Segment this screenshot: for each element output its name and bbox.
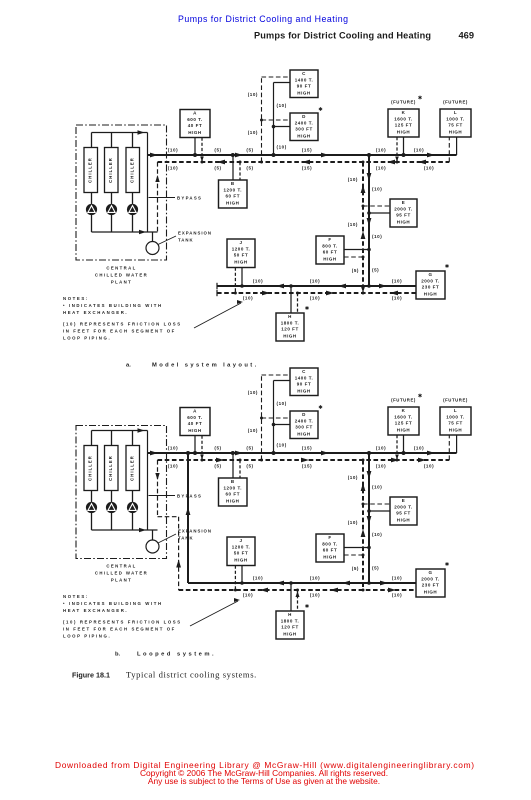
svg-text:(10): (10)	[248, 92, 258, 97]
svg-text:(10): (10)	[168, 463, 178, 468]
svg-text:HIGH: HIGH	[397, 427, 410, 432]
svg-text:120 FT: 120 FT	[281, 327, 299, 332]
svg-text:120 FT: 120 FT	[281, 625, 299, 630]
svg-text:IN FEET FOR EACH SEGMENT OF: IN FEET FOR EACH SEGMENT OF	[63, 329, 176, 334]
svg-text:C: C	[302, 71, 306, 76]
svg-text:1600 T.: 1600 T.	[394, 414, 413, 419]
svg-text:1400 T.: 1400 T.	[295, 77, 314, 82]
svg-text:(10): (10)	[310, 593, 320, 598]
svg-text:NOTES:: NOTES:	[63, 594, 89, 599]
svg-text:(5): (5)	[214, 463, 221, 468]
svg-text:50 FT: 50 FT	[234, 551, 249, 556]
svg-text:(FUTURE): (FUTURE)	[443, 398, 468, 403]
svg-text:CHILLED WATER: CHILLED WATER	[95, 273, 148, 278]
svg-text:Pumps for District Cooling and: Pumps for District Cooling and Heating	[178, 14, 348, 24]
svg-text:(5): (5)	[352, 566, 359, 571]
svg-text:CHILLER: CHILLER	[108, 455, 113, 481]
svg-text:95 FT: 95 FT	[396, 511, 411, 516]
svg-text:TANK: TANK	[178, 536, 194, 541]
svg-text:CHILLER: CHILLER	[129, 455, 134, 481]
svg-text:(5): (5)	[372, 268, 379, 273]
svg-text:(10): (10)	[424, 165, 434, 170]
svg-text:469: 469	[458, 31, 474, 41]
svg-text:Any use is subject to the Term: Any use is subject to the Terms of Use a…	[148, 776, 380, 786]
svg-text:(10): (10)	[168, 165, 178, 170]
svg-text:HIGH: HIGH	[323, 256, 336, 261]
svg-text:HIGH: HIGH	[297, 90, 310, 95]
svg-text:125 FT: 125 FT	[395, 123, 413, 128]
svg-text:(5): (5)	[246, 445, 253, 450]
svg-text:HIGH: HIGH	[323, 554, 336, 559]
svg-text:B: B	[231, 181, 235, 186]
svg-text:HIGH: HIGH	[297, 133, 310, 138]
svg-text:1400 T.: 1400 T.	[295, 375, 314, 380]
svg-text:230 FT: 230 FT	[422, 285, 440, 290]
svg-text:(10): (10)	[277, 401, 287, 406]
svg-text:300 FT: 300 FT	[295, 127, 313, 132]
svg-text:HIGH: HIGH	[424, 291, 437, 296]
svg-text:(FUTURE): (FUTURE)	[443, 100, 468, 105]
svg-text:HEAT EXCHANGER.: HEAT EXCHANGER.	[63, 608, 128, 613]
svg-text:(5): (5)	[214, 147, 221, 152]
svg-text:E: E	[402, 498, 406, 503]
svg-text:HIGH: HIGH	[297, 388, 310, 393]
svg-text:G: G	[428, 570, 432, 575]
svg-text:Typical district cooling syste: Typical district cooling systems.	[126, 670, 257, 680]
svg-text:50 FT: 50 FT	[234, 253, 249, 258]
svg-text:HIGH: HIGH	[424, 589, 437, 594]
svg-text:(10) REPRESENTS FRICTION LOSS: (10) REPRESENTS FRICTION LOSS	[63, 322, 182, 327]
svg-text:(5): (5)	[246, 165, 253, 170]
svg-text:E: E	[402, 200, 406, 205]
svg-text:K: K	[402, 408, 406, 413]
svg-text:1000 T.: 1000 T.	[446, 116, 465, 121]
svg-text:(10): (10)	[243, 296, 253, 301]
svg-text:(5): (5)	[246, 463, 253, 468]
svg-text:(10): (10)	[348, 475, 358, 480]
svg-text:LOOP PIPING.: LOOP PIPING.	[63, 336, 111, 341]
svg-text:1800 T.: 1800 T.	[281, 320, 300, 325]
svg-text:HIGH: HIGH	[283, 631, 296, 636]
svg-text:(10): (10)	[372, 485, 382, 490]
svg-text:IN FEET FOR EACH SEGMENT OF: IN FEET FOR EACH SEGMENT OF	[63, 627, 176, 632]
svg-text:1800 T.: 1800 T.	[281, 618, 300, 623]
svg-text:60 FT: 60 FT	[323, 548, 338, 553]
svg-text:EXPANSION: EXPANSION	[178, 231, 212, 236]
svg-text:HIGH: HIGH	[397, 517, 410, 522]
svg-text:B: B	[231, 479, 235, 484]
svg-text:800 T.: 800 T.	[322, 541, 338, 546]
svg-text:• INDICATES BUILDING WITH: • INDICATES BUILDING WITH	[63, 601, 163, 606]
svg-text:(10): (10)	[348, 222, 358, 227]
svg-text:(FUTURE): (FUTURE)	[391, 398, 416, 403]
svg-text:(10): (10)	[392, 296, 402, 301]
svg-text:PLANT: PLANT	[111, 280, 132, 285]
svg-text:F: F	[328, 535, 331, 540]
svg-text:(10): (10)	[372, 187, 382, 192]
svg-text:(10): (10)	[392, 593, 402, 598]
svg-text:• INDICATES BUILDING WITH: • INDICATES BUILDING WITH	[63, 303, 163, 308]
svg-text:75 FT: 75 FT	[448, 421, 463, 426]
svg-text:HIGH: HIGH	[397, 219, 410, 224]
svg-text:C: C	[302, 369, 306, 374]
svg-text:A: A	[193, 111, 197, 116]
svg-text:(10): (10)	[310, 296, 320, 301]
svg-text:(10): (10)	[310, 575, 320, 580]
svg-text:(FUTURE): (FUTURE)	[391, 100, 416, 105]
svg-text:(10) REPRESENTS FRICTION LOSS: (10) REPRESENTS FRICTION LOSS	[63, 620, 182, 625]
svg-text:1200 T.: 1200 T.	[223, 187, 242, 192]
svg-text:J: J	[239, 240, 242, 245]
svg-text:HIGH: HIGH	[234, 557, 247, 562]
svg-text:H: H	[288, 612, 292, 617]
svg-text:Looped system.: Looped system.	[137, 652, 216, 658]
svg-text:HIGH: HIGH	[188, 130, 201, 135]
svg-text:Pumps for District Cooling and: Pumps for District Cooling and Heating	[254, 31, 431, 41]
svg-text:(10): (10)	[253, 575, 263, 580]
svg-text:(5): (5)	[246, 147, 253, 152]
svg-text:EXPANSION: EXPANSION	[178, 529, 212, 534]
svg-text:90 FT: 90 FT	[297, 382, 312, 387]
svg-text:2000 T.: 2000 T.	[421, 278, 440, 283]
svg-text:K: K	[402, 110, 406, 115]
svg-text:600 T.: 600 T.	[187, 117, 203, 122]
svg-text:(10): (10)	[253, 278, 263, 283]
svg-text:HIGH: HIGH	[226, 498, 239, 503]
svg-text:LOOP PIPING.: LOOP PIPING.	[63, 634, 111, 639]
svg-text:(5): (5)	[372, 566, 379, 571]
svg-text:(10): (10)	[277, 145, 287, 150]
svg-text:A: A	[193, 409, 197, 414]
svg-text:J: J	[239, 538, 242, 543]
svg-text:a.: a.	[126, 363, 131, 369]
svg-text:1200 T.: 1200 T.	[223, 485, 242, 490]
svg-text:(15): (15)	[302, 165, 312, 170]
svg-text:CHILLER: CHILLER	[129, 157, 134, 183]
svg-text:b.: b.	[115, 652, 121, 658]
svg-text:300 FT: 300 FT	[295, 425, 313, 430]
svg-text:2400 T.: 2400 T.	[295, 418, 314, 423]
svg-text:(10): (10)	[424, 463, 434, 468]
svg-text:230 FT: 230 FT	[422, 583, 440, 588]
svg-text:90 FT: 90 FT	[297, 84, 312, 89]
svg-text:(15): (15)	[302, 463, 312, 468]
svg-text:40 FT: 40 FT	[188, 123, 203, 128]
svg-text:HIGH: HIGH	[397, 129, 410, 134]
svg-text:BYPASS: BYPASS	[177, 196, 202, 201]
svg-text:G: G	[428, 272, 432, 277]
svg-text:2000 T.: 2000 T.	[394, 206, 413, 211]
svg-text:(10): (10)	[414, 445, 424, 450]
svg-text:L: L	[454, 110, 457, 115]
svg-text:Model system layout.: Model system layout.	[152, 363, 259, 369]
svg-text:(10): (10)	[168, 147, 178, 152]
svg-text:(10): (10)	[376, 445, 386, 450]
svg-text:600 T.: 600 T.	[187, 415, 203, 420]
svg-text:1200 T.: 1200 T.	[232, 544, 251, 549]
svg-text:(10): (10)	[310, 278, 320, 283]
svg-text:(10): (10)	[248, 428, 258, 433]
svg-text:(10): (10)	[414, 147, 424, 152]
svg-text:NOTES:: NOTES:	[63, 296, 89, 301]
svg-text:(5): (5)	[214, 445, 221, 450]
svg-text:HEAT EXCHANGER.: HEAT EXCHANGER.	[63, 310, 128, 315]
svg-text:60 FT: 60 FT	[225, 492, 240, 497]
svg-text:TANK: TANK	[178, 238, 194, 243]
svg-text:800 T.: 800 T.	[322, 243, 338, 248]
svg-text:(10): (10)	[376, 463, 386, 468]
svg-text:(10): (10)	[248, 390, 258, 395]
svg-text:HIGH: HIGH	[234, 259, 247, 264]
svg-text:HIGH: HIGH	[297, 431, 310, 436]
svg-text:125 FT: 125 FT	[395, 421, 413, 426]
svg-text:75 FT: 75 FT	[448, 123, 463, 128]
svg-text:H: H	[288, 314, 292, 319]
svg-text:HIGH: HIGH	[283, 333, 296, 338]
svg-text:(10): (10)	[376, 147, 386, 152]
svg-text:(10): (10)	[348, 520, 358, 525]
svg-text:2000 T.: 2000 T.	[394, 504, 413, 509]
svg-text:(5): (5)	[214, 165, 221, 170]
svg-text:(10): (10)	[372, 234, 382, 239]
svg-text:(10): (10)	[277, 103, 287, 108]
svg-text:F: F	[328, 237, 331, 242]
svg-text:HIGH: HIGH	[226, 200, 239, 205]
svg-text:(10): (10)	[243, 593, 253, 598]
svg-text:(10): (10)	[372, 532, 382, 537]
svg-text:BYPASS: BYPASS	[177, 494, 202, 499]
svg-text:2400 T.: 2400 T.	[295, 120, 314, 125]
svg-text:(15): (15)	[302, 147, 312, 152]
svg-text:1000 T.: 1000 T.	[446, 414, 465, 419]
svg-text:(10): (10)	[392, 278, 402, 283]
svg-text:HIGH: HIGH	[449, 129, 462, 134]
svg-text:2000 T.: 2000 T.	[421, 576, 440, 581]
svg-text:(10): (10)	[376, 165, 386, 170]
svg-text:(10): (10)	[168, 445, 178, 450]
svg-text:HIGH: HIGH	[449, 427, 462, 432]
svg-text:CENTRAL: CENTRAL	[106, 564, 136, 569]
svg-text:(10): (10)	[248, 130, 258, 135]
svg-text:(5): (5)	[352, 268, 359, 273]
svg-text:(10): (10)	[277, 443, 287, 448]
svg-text:L: L	[454, 408, 457, 413]
svg-text:60 FT: 60 FT	[225, 194, 240, 199]
svg-text:60 FT: 60 FT	[323, 250, 338, 255]
svg-text:CHILLED WATER: CHILLED WATER	[95, 571, 148, 576]
svg-text:D: D	[302, 114, 306, 119]
svg-text:(10): (10)	[392, 575, 402, 580]
svg-text:(15): (15)	[302, 445, 312, 450]
svg-text:(10): (10)	[348, 177, 358, 182]
svg-text:PLANT: PLANT	[111, 578, 132, 583]
svg-text:HIGH: HIGH	[188, 428, 201, 433]
svg-text:CHILLER: CHILLER	[87, 455, 92, 481]
svg-text:CENTRAL: CENTRAL	[106, 266, 136, 271]
svg-text:Figure 18.1: Figure 18.1	[72, 671, 110, 680]
svg-text:CHILLER: CHILLER	[87, 157, 92, 183]
svg-text:95 FT: 95 FT	[396, 213, 411, 218]
svg-text:1600 T.: 1600 T.	[394, 116, 413, 121]
svg-text:D: D	[302, 412, 306, 417]
svg-text:CHILLER: CHILLER	[108, 157, 113, 183]
svg-text:1200 T.: 1200 T.	[232, 246, 251, 251]
svg-text:40 FT: 40 FT	[188, 421, 203, 426]
